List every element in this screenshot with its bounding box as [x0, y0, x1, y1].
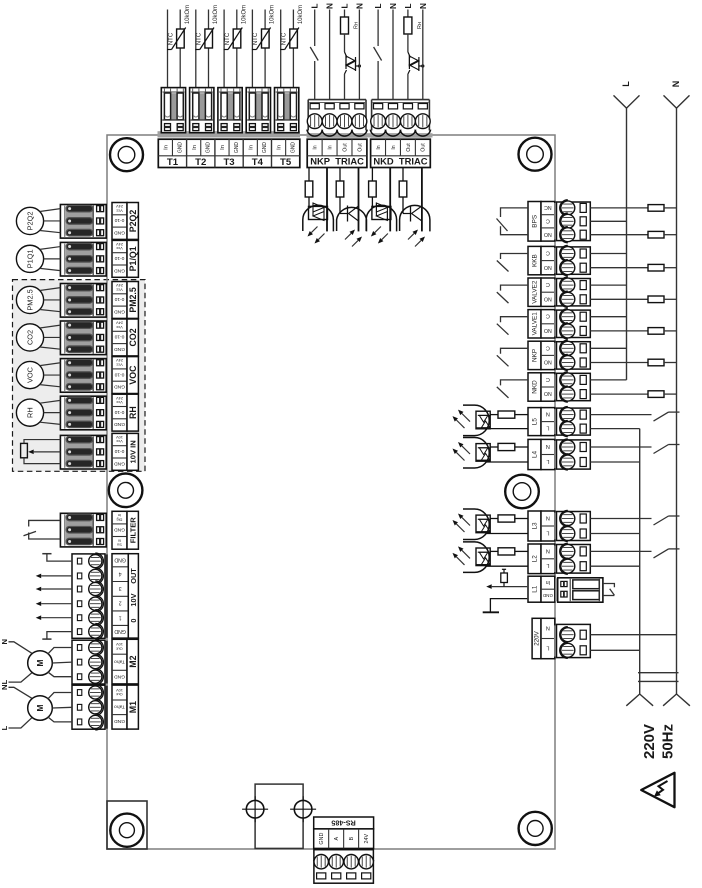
terminal name PM2.5 [127, 282, 138, 319]
svg-text:P1Q1: P1Q1 [26, 249, 35, 268]
switch L1 external [603, 584, 615, 588]
svg-text:In: In [192, 145, 198, 150]
svg-text:NO: NO [544, 295, 552, 301]
wire BPS NC fuse [590, 207, 648, 209]
terminal strip T1-T5 pin row [158, 139, 299, 167]
svg-text:NKD: NKD [532, 380, 539, 394]
svg-text:P2Q2: P2Q2 [26, 211, 35, 230]
relay contact BPS [501, 208, 529, 217]
terminal strip VOC [112, 357, 127, 394]
svg-text:Rн: Rн [353, 22, 359, 29]
wire VALVE1 C to L rail [590, 316, 626, 318]
svg-text:L: L [404, 3, 413, 8]
svg-text:A: A [334, 836, 340, 840]
filter pressure switch wires [29, 520, 61, 526]
svg-text:FILTER: FILTER [128, 517, 137, 544]
wire L3 L to L-line [590, 533, 639, 535]
wires sensor P2Q2 [40, 209, 61, 212]
terminal strip NKD [528, 373, 541, 401]
svg-text:C: C [546, 376, 550, 382]
plug T4 [246, 88, 270, 133]
wire N NKP pin2 [329, 10, 331, 100]
wire N NKP pin4 [358, 10, 360, 100]
svg-text:M: M [35, 704, 45, 711]
plug CO2 [101, 322, 108, 354]
relay contact NKD [501, 380, 529, 386]
svg-text:In: In [248, 145, 254, 150]
mounting hole mid-left [109, 474, 143, 508]
optocoupler L4 [463, 438, 489, 469]
bracket box RS-485 [255, 784, 303, 848]
svg-text:In: In [220, 145, 226, 150]
svg-text:0-10: 0-10 [114, 448, 124, 454]
svg-text:GND: GND [114, 673, 125, 679]
mounting hole top-left [110, 138, 143, 171]
wire L1 GND to ground [490, 599, 527, 613]
wire L5 L [486, 428, 528, 430]
warning triangle high voltage [641, 773, 674, 807]
svg-text:Vcc: Vcc [116, 439, 123, 444]
wires motor M2 [48, 648, 72, 655]
wire KKB C to L rail [590, 253, 626, 255]
svg-text:GND: GND [262, 142, 268, 154]
svg-text:50Hz: 50Hz [659, 724, 676, 759]
svg-text:M: M [35, 659, 45, 666]
svg-text:L: L [546, 529, 549, 535]
svg-text:NO: NO [544, 264, 552, 270]
terminal strip M2 [112, 639, 127, 684]
thermistor NTC T5 wires [280, 10, 282, 88]
mounting hole top-right [519, 138, 552, 171]
terminal strip L1 [528, 576, 541, 602]
svg-text:Vcc: Vcc [116, 246, 123, 251]
svg-text:10V IN: 10V IN [128, 440, 137, 463]
terminal strip NKP [528, 341, 541, 369]
resistor NKP opto-in [308, 168, 310, 182]
svg-text:Dig: Dig [117, 517, 123, 522]
arrows L5 [462, 413, 470, 421]
terminal name VOC [127, 357, 138, 394]
thermistor NTC T3 wires [223, 10, 225, 88]
input resistor L3 [515, 518, 528, 520]
svg-text:10V: 10V [129, 593, 138, 606]
terminal name CO2 [127, 319, 138, 356]
svg-text:NC: NC [544, 204, 552, 210]
board outline [107, 135, 555, 849]
screw terminal L3 [554, 513, 558, 540]
svg-text:Vcc: Vcc [116, 287, 123, 292]
svg-text:L1: L1 [532, 585, 539, 593]
thermistor NTC T1 [177, 29, 185, 48]
svg-text:T4: T4 [252, 157, 264, 168]
svg-text:GND: GND [319, 833, 325, 845]
wire L1 In with arrow [492, 586, 528, 588]
plug T3 [218, 88, 242, 133]
potentiometer 10V IN [21, 443, 28, 457]
terminal strip VALVE1 [528, 310, 541, 338]
wire N NKD pin4 [422, 10, 424, 100]
sensor circle P1Q1 [16, 245, 43, 272]
screw terminal NKP [554, 343, 558, 368]
svg-text:NO: NO [544, 327, 552, 333]
arrows L3 [462, 517, 470, 525]
relay block BPS [528, 202, 541, 242]
plug T2 [190, 88, 214, 133]
svg-text:Taho: Taho [114, 704, 125, 710]
svg-text:Out: Out [357, 143, 363, 152]
svg-text:NKD TRIAC: NKD TRIAC [373, 156, 427, 167]
fuse KKB [590, 267, 648, 269]
svg-text:L: L [311, 3, 320, 8]
terminal name P1/Q1 [127, 240, 138, 277]
fuse VALVE1 [590, 330, 648, 332]
svg-text:NTC: NTC [197, 32, 203, 45]
optocoupler L5 [463, 405, 489, 436]
edge pad band NKP/NKD [307, 133, 433, 137]
optocoupler NKD emitter [400, 205, 430, 231]
svg-text:VALVE1: VALVE1 [532, 312, 539, 336]
wire L NKP pin1 [314, 10, 316, 47]
wire N NKD pin2 [392, 10, 394, 100]
svg-text:N: N [355, 3, 364, 9]
wire 220V N to N rail [590, 634, 676, 636]
svg-text:OUT: OUT [129, 568, 138, 584]
mounting hole bottom-left [110, 814, 143, 847]
svg-text:10kOm: 10kOm [213, 5, 219, 24]
svg-text:NO: NO [544, 390, 552, 396]
svg-text:Su: Su [117, 543, 122, 548]
svg-text:P1/Q1: P1/Q1 [128, 246, 138, 271]
svg-text:In: In [327, 145, 333, 149]
svg-text:2: 2 [119, 600, 122, 606]
svg-text:N: N [546, 411, 550, 417]
screw terminal M1 [72, 685, 105, 729]
wire L collector line [639, 429, 641, 694]
svg-text:NTC: NTC [281, 32, 287, 45]
svg-text:C: C [546, 344, 550, 350]
switch L5 to N rail [590, 414, 651, 416]
screw terminal L2 [554, 546, 558, 573]
wire BPS C to L rail [590, 220, 626, 222]
svg-text:L: L [0, 725, 9, 730]
mounting hole mid-right [505, 475, 539, 509]
svg-text:GND: GND [114, 421, 125, 427]
wires sensor RH [40, 400, 61, 403]
screw terminal VALVE1 [554, 311, 558, 336]
svg-text:0-10: 0-10 [114, 296, 124, 302]
svg-text:L3: L3 [532, 522, 539, 530]
triac NKP [345, 52, 348, 58]
terminal strip PM2.5 [112, 282, 127, 319]
plug T1 [161, 88, 185, 133]
wire L rail [626, 108, 628, 380]
svg-text:VOC: VOC [26, 366, 35, 383]
svg-text:GND: GND [206, 142, 212, 154]
svg-text:L: L [340, 3, 349, 8]
svg-text:1: 1 [119, 614, 122, 620]
arrows NKD receiver [375, 227, 381, 233]
svg-text:L: L [546, 562, 549, 568]
svg-text:In: In [546, 579, 550, 585]
terminal name P2Q2 [127, 203, 138, 240]
screw terminal L4 [554, 441, 558, 468]
svg-text:L: L [621, 81, 631, 87]
svg-text:In: In [313, 145, 319, 149]
input resistor L5 [515, 414, 528, 416]
svg-text:GND: GND [177, 142, 183, 154]
svg-text:3: 3 [119, 585, 122, 591]
ground L1 [483, 611, 499, 613]
terminal strip 0 10V OUT [112, 554, 128, 638]
plug FILTER [101, 514, 108, 546]
svg-text:Vcc: Vcc [116, 325, 123, 330]
edge pad band T1-T5 [158, 131, 301, 137]
svg-text:NO: NO [544, 359, 552, 365]
wire L2 L [486, 565, 528, 567]
sensor circle P2Q2 [16, 207, 43, 234]
wires motor M1 [48, 693, 72, 700]
svg-text:T5: T5 [280, 157, 292, 168]
wires sensor VOC [40, 363, 61, 366]
terminal strip NKP [307, 139, 367, 167]
switch L4 to N rail [590, 446, 651, 448]
svg-text:KKB: KKB [532, 254, 539, 267]
svg-text:VALVE2: VALVE2 [532, 280, 539, 304]
wire BPS NO fuse [590, 234, 648, 236]
svg-text:Out: Out [115, 646, 122, 651]
optocoupler L2 [463, 542, 489, 573]
terminal name 0 10V OUT [128, 554, 138, 638]
gnd stub bottom 10V OUT [47, 632, 72, 640]
svg-text:RH: RH [26, 407, 35, 418]
resistor Rn NKD [407, 10, 409, 18]
svg-text:NTC: NTC [168, 32, 174, 45]
screw terminal 220V [554, 625, 558, 656]
svg-text:C: C [546, 217, 550, 223]
plug VOC [101, 360, 108, 392]
terminal strip RS-485 name [314, 817, 374, 829]
svg-text:C: C [546, 249, 550, 255]
resistor Rn NKP [344, 10, 346, 18]
svg-text:NO: NO [544, 231, 552, 237]
svg-text:N: N [0, 685, 9, 690]
relay contact NKP [501, 348, 529, 354]
svg-text:Taho: Taho [114, 658, 125, 664]
board corner square [107, 801, 147, 849]
svg-text:NKP TRIAC: NKP TRIAC [310, 156, 364, 167]
svg-text:10kOm: 10kOm [241, 5, 247, 24]
terminal strip M1 [112, 685, 127, 729]
wire L5 L to L-line [590, 428, 639, 430]
svg-text:L5: L5 [532, 418, 539, 426]
svg-text:B: B [349, 836, 355, 840]
svg-text:GND: GND [114, 460, 125, 466]
svg-text:M1: M1 [128, 701, 138, 713]
terminal strip RS-485 cells [314, 829, 374, 849]
screw terminal RS-485 [313, 849, 374, 854]
wire L3 L [486, 533, 528, 535]
svg-text:NTC: NTC [253, 32, 259, 45]
wire N rail [676, 108, 678, 694]
suppressor L1 [503, 583, 505, 587]
terminal name 10V IN [127, 433, 138, 470]
svg-text:CO2: CO2 [26, 330, 35, 345]
svg-text:L: L [0, 679, 9, 684]
svg-text:GND: GND [542, 593, 553, 598]
svg-text:GND: GND [114, 229, 125, 235]
terminal name M1 [127, 685, 138, 729]
svg-text:GND: GND [114, 628, 126, 634]
thermistor NTC T4 wires [251, 10, 253, 88]
thermistor NTC T3 [233, 29, 241, 48]
svg-text:220V: 220V [534, 630, 541, 645]
svg-text:N: N [546, 443, 550, 449]
terminal strip NKD [371, 139, 431, 167]
terminal strip FILTER [112, 511, 127, 549]
svg-text:N: N [389, 3, 398, 9]
svg-text:L: L [374, 3, 383, 8]
feed arrow L [614, 95, 640, 108]
switch NKP [310, 47, 318, 61]
svg-text:Out: Out [115, 692, 122, 697]
resistor NKD opto-in [371, 168, 373, 182]
edge pad band RS-485 [313, 848, 374, 853]
plug T5 [275, 88, 299, 133]
svg-text:RS-485: RS-485 [331, 818, 355, 827]
relay contact VALVE2 [501, 285, 529, 291]
arrows NKD emitter [408, 233, 414, 239]
switch NKD [374, 47, 382, 61]
wire L4 L to L-line [590, 461, 639, 463]
svg-text:PM2.5: PM2.5 [128, 287, 138, 313]
optocoupler NKP receiver [303, 205, 334, 231]
svg-text:NTC: NTC [225, 32, 231, 45]
thermistor NTC T2 wires [195, 10, 197, 88]
plug P1/Q1 [101, 243, 108, 275]
wire 220V L to L-line [590, 649, 639, 651]
optocoupler NKP emitter [337, 207, 367, 231]
sensor circle RH [16, 399, 43, 426]
svg-text:N: N [0, 639, 9, 644]
arrows L4 [462, 446, 470, 454]
svg-text:10kOm: 10kOm [270, 5, 276, 24]
svg-text:N: N [546, 514, 550, 520]
svg-text:L: L [546, 425, 549, 431]
switch L3 to N rail [590, 518, 651, 520]
wire NKD C to L rail [590, 379, 626, 381]
plug L1 [555, 578, 559, 601]
svg-text:N: N [546, 547, 550, 553]
terminal strip L4 [528, 439, 541, 469]
sensor circle VOC [16, 361, 43, 388]
input resistor L4 [515, 446, 528, 448]
sensor circle CO2 [16, 324, 43, 351]
svg-text:In: In [391, 145, 397, 149]
resistor NKD led [402, 168, 404, 182]
svg-text:M2: M2 [128, 655, 138, 667]
wires sensor CO2 [40, 325, 61, 328]
svg-text:C: C [546, 281, 550, 287]
svg-text:Vcc: Vcc [116, 362, 123, 367]
svg-text:GND: GND [114, 267, 125, 273]
terminal strip P1/Q1 [112, 240, 127, 277]
plug RH [101, 397, 108, 429]
terminal strip 10V IN [112, 433, 127, 470]
plug PM2.5 [101, 285, 108, 317]
svg-text:Out: Out [421, 143, 427, 152]
svg-text:PM2.5: PM2.5 [26, 289, 35, 310]
svg-text:T3: T3 [223, 157, 234, 168]
feed arrow N [664, 95, 690, 108]
svg-text:L: L [546, 644, 549, 650]
svg-text:4: 4 [119, 570, 122, 576]
resistor NKP led [339, 168, 341, 182]
input resistor L2 [515, 550, 528, 552]
motor M1 [28, 696, 53, 721]
terminal name RH [127, 394, 138, 431]
svg-text:In: In [376, 145, 382, 149]
terminal strip CO2 [112, 319, 127, 356]
svg-text:CO2: CO2 [128, 328, 138, 346]
terminal strip RH [112, 394, 127, 431]
svg-text:0-10: 0-10 [114, 371, 124, 377]
svg-text:BPS: BPS [532, 215, 539, 228]
svg-text:C: C [546, 313, 550, 319]
optocoupler NKD receiver [366, 205, 396, 231]
analog out arrows 10V OUT [41, 575, 72, 577]
svg-text:L4: L4 [532, 451, 539, 459]
screw terminal BPS [554, 203, 558, 240]
fuse NKD [590, 393, 648, 395]
svg-text:GND: GND [114, 384, 125, 390]
terminal strip 220V [532, 618, 541, 658]
triac NKD [408, 52, 411, 58]
svg-text:Vcc: Vcc [116, 208, 123, 213]
screw terminal plug NKP [307, 133, 367, 138]
switch L2 to N rail [590, 550, 651, 552]
svg-text:24V: 24V [364, 833, 370, 843]
svg-text:Out: Out [406, 143, 412, 152]
terminal strip VALVE2 [528, 278, 541, 306]
wires sensor P1Q1 [40, 247, 61, 250]
svg-text:Vcc: Vcc [116, 400, 123, 405]
svg-text:RH: RH [128, 406, 138, 419]
svg-text:P2Q2: P2Q2 [128, 210, 138, 233]
svg-text:0: 0 [129, 618, 138, 622]
thermistor NTC T2 [205, 29, 213, 48]
svg-text:10kOm: 10kOm [185, 5, 191, 24]
plug 10V IN [101, 436, 108, 468]
sensor circle PM2.5 [16, 286, 43, 313]
optocoupler L3 [463, 509, 489, 540]
svg-text:0-10: 0-10 [114, 217, 124, 223]
svg-text:220V: 220V [641, 724, 658, 759]
svg-text:N: N [326, 3, 335, 9]
svg-text:VOC: VOC [128, 365, 138, 385]
svg-text:Out: Out [342, 143, 348, 152]
dashed sensor group box [13, 280, 146, 472]
wire VALVE2 C to L rail [590, 284, 626, 286]
gnd stub top 10V OUT [47, 554, 72, 561]
svg-text:GND: GND [114, 718, 125, 724]
svg-text:0-10: 0-10 [114, 255, 124, 261]
terminal strip P2Q2 [112, 203, 127, 240]
fuse NKP [590, 362, 648, 364]
svg-text:0-10: 0-10 [114, 409, 124, 415]
thermistor NTC T5 [290, 29, 298, 48]
plug P2Q2 [101, 206, 108, 238]
wire L4 L [486, 461, 528, 463]
